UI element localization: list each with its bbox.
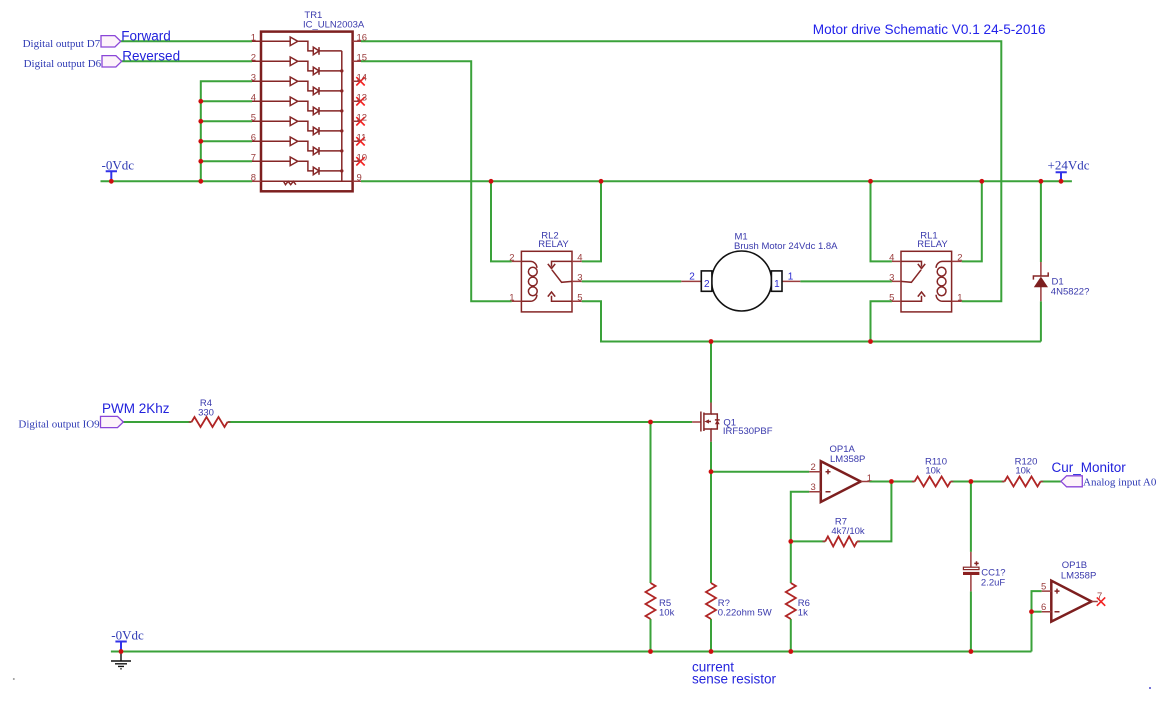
diode D1: [1033, 262, 1089, 301]
svg-text:IC_ULN2003A: IC_ULN2003A: [303, 20, 365, 31]
svg-text:Analog input A0: Analog input A0: [1083, 476, 1157, 488]
wire OP1A pin3 to R6: [791, 492, 810, 583]
TR1 bus junction dots: [340, 69, 343, 172]
svg-text:Digital output IO9: Digital output IO9: [18, 418, 100, 430]
svg-text:sense resistor: sense resistor: [692, 672, 777, 687]
resistor R6: [786, 583, 810, 619]
svg-text:2: 2: [811, 462, 816, 473]
wire pin5 stub: [201, 120, 252, 122]
wire pin6 stub: [201, 140, 252, 142]
power flag +24Vdc: [1048, 157, 1090, 181]
wire pin4 stub: [201, 100, 252, 102]
TR1 left pin numbers: [251, 33, 256, 184]
wire PWM from label to R4: [123, 421, 191, 423]
svg-text:5: 5: [1041, 581, 1046, 592]
svg-text:5: 5: [251, 113, 256, 124]
svg-text:1k: 1k: [798, 608, 808, 619]
resistor R5: [646, 583, 675, 619]
svg-text:1: 1: [957, 292, 962, 303]
global label Digital output D6 / Reversed: [24, 49, 180, 70]
svg-text:8: 8: [251, 173, 256, 184]
TR1 no-connect X pin12: [356, 117, 364, 125]
wire RL1 pin2 drop: [962, 181, 982, 261]
wire pin2 net Reversed: [122, 60, 252, 62]
svg-text:RELAY: RELAY: [917, 239, 948, 250]
text current sense resistor: [692, 660, 777, 687]
M1 terminal boxes: [701, 271, 712, 291]
wire RL2 pin3 to motor: [582, 280, 682, 282]
global label Digital output D7 / Forward: [23, 29, 171, 50]
wire R5 bottom: [650, 619, 652, 652]
svg-text:Cur_Monitor: Cur_Monitor: [1052, 460, 1127, 475]
TR1 channel 5: [252, 117, 342, 135]
wire D1 top: [1040, 181, 1042, 262]
resistor R110: [912, 456, 953, 486]
svg-text:RELAY: RELAY: [538, 239, 569, 250]
svg-text:4: 4: [889, 252, 894, 263]
TR1 pin8 stub: [252, 180, 261, 182]
RL1 pin stubs: [892, 261, 962, 301]
TR1 internal common bus: [341, 51, 343, 181]
wire pin7 stub: [201, 160, 252, 162]
svg-text:Reversed: Reversed: [122, 49, 180, 64]
wire top rail right of IC: [361, 180, 1072, 182]
svg-text:2: 2: [251, 53, 256, 64]
junction dots top rail: [109, 179, 1064, 184]
svg-text:4N5822?: 4N5822?: [1051, 286, 1090, 297]
wire motor pin1 to RL1 pin3: [800, 280, 892, 282]
TR1 channel 1: [252, 37, 342, 55]
svg-text:-0Vdc: -0Vdc: [102, 158, 135, 173]
svg-text:+24Vdc: +24Vdc: [1048, 157, 1090, 172]
TR1 pin8 internal line and substrate squiggle: [261, 181, 353, 184]
wire R4 to Q1 gate: [228, 421, 693, 423]
wire source to OP1A pin2: [711, 471, 809, 473]
wire Q1 source down to R?: [710, 442, 712, 583]
svg-text:2: 2: [689, 272, 695, 283]
wire pin16 net to RL1 pin1: [361, 41, 1001, 301]
junction dots bottom rail: [119, 609, 1034, 654]
D1 schottky cathode bar: [1033, 272, 1048, 279]
svg-text:Brush Motor 24Vdc 1.8A: Brush Motor 24Vdc 1.8A: [734, 241, 838, 252]
resistor R? current sense: [706, 583, 772, 619]
svg-text:3: 3: [577, 272, 582, 283]
wire 0V rail left: [101, 180, 253, 182]
svg-text:13: 13: [357, 93, 368, 104]
svg-text:11: 11: [357, 133, 367, 144]
svg-text:1: 1: [774, 279, 780, 290]
TR1 right pin numbers: [357, 33, 368, 184]
mosfet Q1: [692, 403, 773, 442]
wire RL1 pin5 to bottom loop: [871, 301, 892, 341]
svg-text:10k: 10k: [659, 608, 675, 619]
svg-text:PWM 2Khz: PWM 2Khz: [102, 401, 170, 416]
svg-text:1: 1: [867, 473, 872, 484]
wire RL1 pin4 drop: [871, 181, 892, 261]
wire OP1A output to R110: [870, 481, 915, 483]
TR1 channel 7: [252, 157, 342, 175]
svg-text:0.22ohm 5W: 0.22ohm 5W: [718, 608, 772, 619]
wire bottom 0V rail: [111, 651, 1032, 653]
ground symbol: [111, 652, 131, 669]
svg-text:-0Vdc: -0Vdc: [111, 627, 144, 642]
wire R5 branch: [650, 422, 652, 583]
svg-text:1: 1: [788, 272, 794, 283]
svg-text:4: 4: [577, 252, 582, 263]
svg-text:6: 6: [251, 133, 256, 144]
RL1 switch contacts: [901, 261, 925, 301]
resistor R4: [189, 398, 231, 427]
M1 pin stubs: [681, 280, 800, 282]
TR1 no-connect X pin11: [356, 137, 364, 145]
TR1 channel 2: [252, 57, 342, 75]
RL1 pin numbers: [889, 252, 962, 303]
wire R? bottom: [710, 619, 712, 652]
op-amp OP1B: [1041, 560, 1105, 622]
junction dots motor loop: [709, 339, 873, 344]
wire OP1B pins 5,6: [1032, 591, 1042, 651]
relay RL1: [889, 230, 962, 312]
svg-text:330: 330: [198, 407, 214, 418]
svg-text:10: 10: [357, 153, 368, 164]
op-amp OP1A: [809, 444, 872, 502]
wire RL2 pin5 to bottom loop: [582, 301, 1041, 341]
IC TR1 ULN2003A: [251, 10, 367, 191]
OP1B no-connect X: [1097, 597, 1105, 605]
svg-text:6: 6: [1041, 602, 1046, 613]
wire pin15 net to RL2 pin1: [361, 61, 512, 301]
svg-text:14: 14: [357, 73, 368, 84]
wire R6 bottom: [790, 619, 792, 652]
svg-text:3: 3: [251, 73, 256, 84]
svg-text:10k: 10k: [925, 466, 941, 477]
svg-text:16: 16: [357, 33, 368, 44]
svg-text:Forward: Forward: [121, 29, 171, 44]
RL1 coil: [936, 261, 952, 301]
svg-text:LM358P: LM358P: [830, 454, 865, 465]
wire R120 to label: [1040, 481, 1061, 483]
svg-text:1: 1: [251, 33, 256, 44]
wire RL2 pin2 drop: [491, 181, 512, 261]
page mark dot left: [13, 678, 15, 680]
resistor R120: [1002, 456, 1043, 486]
svg-text:5: 5: [889, 292, 894, 303]
resistor R7: [823, 516, 865, 546]
TR1 no-connect X pin13: [356, 97, 364, 105]
D1 triangle: [1034, 277, 1048, 288]
global label Cur_Monitor / Analog input A0: [1052, 460, 1157, 488]
TR1 channel 4: [252, 97, 342, 115]
svg-text:3: 3: [889, 272, 894, 283]
svg-text:4k7/10k: 4k7/10k: [831, 526, 865, 537]
wire Q1 drain from motor loop: [710, 342, 712, 403]
wire CC1 top: [970, 482, 972, 552]
svg-text:4: 4: [251, 93, 256, 104]
capacitor CC1: [963, 552, 1006, 592]
TR1 right pin stubs 16 15 9: [353, 41, 361, 181]
svg-text:2: 2: [704, 279, 710, 290]
svg-text:2: 2: [509, 252, 514, 263]
junction dots middle section: [648, 420, 973, 544]
RL2 coil: [521, 261, 537, 301]
wire R7 feedback loop: [857, 482, 891, 542]
svg-text:5: 5: [577, 292, 582, 303]
TR1 channel 3: [252, 77, 342, 95]
wire CC1 bottom: [970, 591, 972, 651]
wire pin1 net Forward: [121, 40, 252, 42]
svg-text:12: 12: [357, 113, 368, 124]
svg-text:10k: 10k: [1015, 466, 1031, 477]
wire RL2 pin4 drop: [582, 181, 601, 261]
svg-text:2: 2: [957, 252, 962, 263]
svg-text:Digital output D6: Digital output D6: [24, 58, 102, 70]
svg-text:Digital output D7: Digital output D7: [23, 38, 101, 50]
TR1 no-connect X pin14: [356, 77, 364, 85]
motor M1: [681, 232, 838, 312]
RL2 pin stubs: [512, 261, 582, 301]
svg-text:9: 9: [357, 173, 362, 184]
TR1 no-connect X pin10: [356, 157, 364, 165]
svg-text:1: 1: [509, 292, 514, 303]
svg-text:15: 15: [357, 53, 368, 64]
power flag -0Vdc top: [102, 158, 135, 182]
TR1 NC pin stubs 14-10: [353, 81, 361, 161]
junction dots feeder: [198, 99, 203, 164]
wire R110 to R120: [951, 481, 1005, 483]
wire feeder vertical pins 3-7: [201, 81, 252, 181]
svg-text:LM358P: LM358P: [1061, 570, 1096, 581]
TR1 channel 6: [252, 137, 342, 155]
wire OP1B pin6 stub: [1032, 611, 1042, 613]
svg-text:OP1B: OP1B: [1062, 560, 1087, 571]
power flag -0Vdc bottom: [111, 627, 144, 651]
RL2 pin numbers: [509, 252, 582, 303]
wire R7 to pin3 node: [791, 540, 825, 542]
svg-text:Motor drive Schematic V0.1 24-: Motor drive Schematic V0.1 24-5-2016: [813, 22, 1046, 37]
RL2 switch contacts: [548, 261, 572, 301]
global label Digital output IO9 / PWM 2Khz: [18, 401, 169, 430]
svg-text:3: 3: [811, 482, 816, 493]
svg-text:7: 7: [251, 153, 256, 164]
svg-text:IRF530PBF: IRF530PBF: [723, 426, 773, 437]
page mark dot right: [1149, 687, 1151, 689]
wire D1 bottom: [1040, 301, 1042, 341]
svg-text:2.2uF: 2.2uF: [981, 577, 1005, 588]
relay RL2: [509, 230, 582, 312]
